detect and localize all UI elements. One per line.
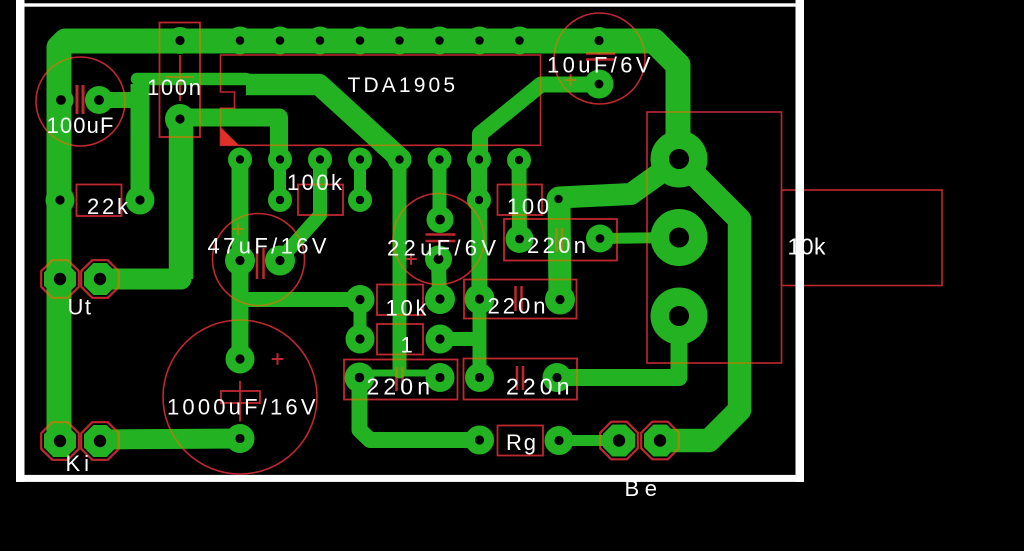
svg-text:Ut: Ut (68, 295, 92, 320)
svg-text:10uF/6V: 10uF/6V (547, 53, 651, 78)
svg-text:100uF: 100uF (47, 113, 114, 138)
svg-text:22k: 22k (87, 194, 129, 219)
svg-text:100n: 100n (147, 75, 201, 100)
svg-text:Rg: Rg (506, 430, 536, 455)
svg-text:10k: 10k (386, 296, 428, 321)
svg-text:1: 1 (401, 333, 413, 358)
svg-text:10k: 10k (788, 234, 827, 260)
svg-text:100: 100 (507, 194, 549, 219)
svg-text:Ki: Ki (66, 451, 90, 476)
svg-text:TDA1905: TDA1905 (348, 74, 456, 97)
